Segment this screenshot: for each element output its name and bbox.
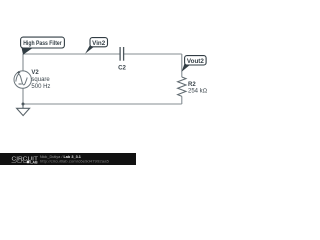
- flag Vout2: [182, 56, 207, 72]
- svg-text:Vin2: Vin2: [92, 40, 106, 47]
- svg-text:R2: R2: [188, 82, 196, 88]
- wire bottom horizontal: [23, 103, 182, 105]
- wire top-left horizontal segment: [23, 53, 120, 55]
- watermark bar: [0, 153, 136, 165]
- watermark logo CIRCUIT LAB: [12, 156, 40, 164]
- svg-text:Vout2: Vout2: [187, 58, 205, 65]
- svg-text:square: square: [31, 77, 50, 83]
- capacitor C2: [120, 47, 124, 61]
- wire left vertical below source: [22, 88, 24, 104]
- svg-text:http://circuitlab.com/c6e9d479: http://circuitlab.com/c6e9d47992aa5: [40, 159, 109, 163]
- svg-text:V2: V2: [31, 70, 39, 76]
- wire right vertical below resistor: [181, 96, 183, 104]
- svg-text:500 Hz: 500 Hz: [31, 84, 50, 90]
- svg-text:LAB: LAB: [30, 161, 38, 165]
- svg-text:254 kΩ: 254 kΩ: [188, 89, 208, 95]
- label R2 value: [188, 82, 208, 95]
- node junction dot bottom-left: [22, 103, 25, 106]
- svg-text:C2: C2: [118, 65, 126, 72]
- ground: [17, 104, 30, 116]
- watermark text: [40, 155, 109, 164]
- wire top-right horizontal segment: [124, 53, 182, 55]
- resistor R2: [178, 77, 186, 96]
- label V2 value: [31, 70, 50, 90]
- flag Vin2: [85, 38, 107, 54]
- wire right vertical above resistor: [181, 54, 183, 77]
- voltage source V2: [14, 71, 31, 88]
- svg-text:Nick_Dutiya / Lab 3_3.1: Nick_Dutiya / Lab 3_3.1: [40, 155, 81, 159]
- wire left vertical above source: [22, 54, 24, 71]
- flag High Pass Filter: [21, 37, 65, 55]
- svg-text:High Pass Filter: High Pass Filter: [23, 40, 62, 47]
